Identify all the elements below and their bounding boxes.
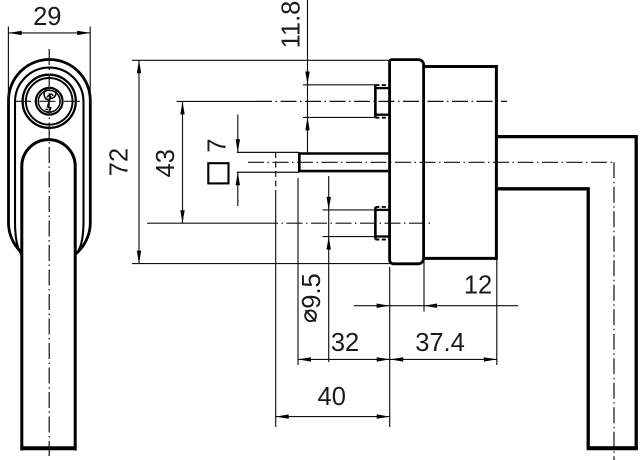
dimension 37.4 arrow right [484,357,497,361]
front view vertical centerline [48,49,50,456]
key profile left hook [44,88,51,99]
spindle square top reference line [237,151,299,153]
front view cylinder horizontal centerline [15,100,84,102]
spindle alternate length dashed line (40) [275,152,277,190]
top screw thread dashed top [375,84,390,86]
svg-text:43: 43 [152,149,180,177]
dimension 40 arrow right [377,414,390,418]
dimension dia 9.5 reference line lower [323,236,376,238]
main spindle centerline horizontal [248,161,614,163]
svg-text:29: 29 [33,3,61,31]
dimension 32 arrow left [298,357,311,361]
top screw thread dashed bottom [375,117,390,119]
dimension 72 arrow top [137,60,141,73]
svg-text:32: 32 [331,329,359,357]
handle arm and grip outline (side view) [496,137,636,448]
dimension 7 arrow lower [236,172,240,185]
dimension 40 line [276,416,390,418]
top screw reference line (43 top, thin solid part) [177,100,257,102]
spindle left end cap [298,152,301,172]
dimension 7 line lower [237,172,239,206]
key profile stem and bit [46,99,51,112]
dimension 29 line [9,32,91,34]
top screw body [375,88,389,115]
dimension 11.8 arrow lower [305,117,309,130]
dimension 72 arrow bottom [137,251,141,264]
dimension 43 arrow bottom [180,210,184,223]
dimension 37.4 arrow left [390,357,403,361]
svg-text:40: 40 [318,383,346,411]
dimension dia 9.5 reference line upper [323,209,376,211]
grip centerline vertical (side view) [613,162,615,460]
escutcheon outer outline (front view) [9,60,91,264]
extension line x497 [496,259,498,366]
rose plate outline (side view) [390,60,424,264]
bottom screw left cap [374,207,377,240]
dimension 29 extension line left [7,27,9,105]
spindle top edge [298,152,390,155]
svg-text:7: 7 [203,138,231,152]
dimension 12 extension line right [423,259,425,312]
spindle bottom edge [298,170,390,173]
dimension 43 line [182,101,184,223]
dimension 7 line upper [237,115,239,153]
dimension 40 extension line left [275,190,277,427]
dimension 29 arrow left [9,31,22,35]
dimension 29 arrow right [77,31,90,35]
dimension 32 arrow right [377,357,390,361]
dimension 32 and 37.4 line [298,358,497,360]
lock cylinder outer circle [23,75,76,128]
escutcheon inner outline [15,68,84,255]
top screw centerline [256,100,507,102]
dimension 72 bottom reference line [132,263,391,265]
svg-text:11.8: 11.8 [277,1,305,49]
dimension 7 arrow upper [236,139,240,152]
dimension 29 extension line right [89,27,91,105]
handle grip (front view) [22,140,75,451]
dimension 43 arrow top [180,101,184,114]
cylinder core circle [36,88,63,115]
handle grip bottom edge (front view) [21,446,77,450]
dimension dia 9.5 arrow upper [327,197,331,210]
dimension square-7 symbol [208,163,228,183]
spindle square bottom reference line [237,171,299,173]
bottom screw reference line (43 bottom, thin solid part) [147,222,262,224]
dimension 12 arrow right (outside) [424,304,437,308]
dimension 11.8 line [307,0,309,152]
dimension 11.8 arrow upper [305,72,309,85]
top screw left cap [374,85,377,118]
dimension dia 9.5 line [328,176,330,362]
bottom screw centerline [262,222,430,224]
shared extension line x390 [389,267,391,427]
svg-text:12: 12 [464,272,492,300]
neck block outline (side view) [424,67,497,259]
svg-text:9.5: 9.5 [298,273,326,308]
svg-text:37.4: 37.4 [415,329,465,357]
grip bottom edge (side view) [587,446,638,450]
dimension 72 top reference line [132,59,390,61]
dimension 40 arrow left [276,414,289,418]
dimension 12 line [354,305,518,307]
dimension dia 9.5 diameter symbol [305,310,316,321]
bottom screw body [375,210,389,237]
key profile right hook [49,88,56,99]
dimension dia 9.5 arrow lower [327,237,331,250]
dimension 11.8 reference line lower [303,116,376,118]
bottom screw thread dashed top [375,206,390,208]
dimension 11.8 reference line upper [303,84,376,86]
bottom screw thread dashed bottom [375,239,390,241]
cylinder core inner circle [38,90,60,112]
dimension 72 line [138,60,140,263]
dimension 32 extension line left [297,178,299,365]
lock cylinder second circle [26,78,73,125]
dimension 12 arrow left (outside) [377,304,390,308]
svg-text:72: 72 [106,148,134,176]
